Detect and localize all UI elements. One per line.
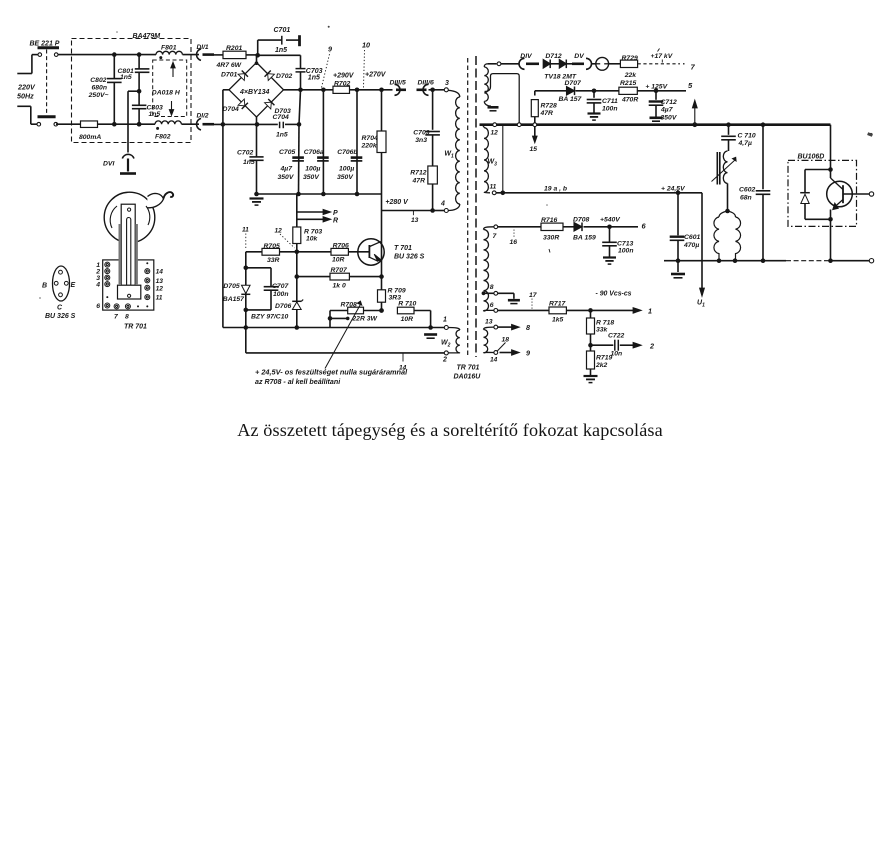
svg-text:10: 10 <box>362 41 370 50</box>
svg-text:350V: 350V <box>278 174 295 181</box>
svg-text:F801: F801 <box>161 44 177 51</box>
svg-text:C802: C802 <box>90 77 106 84</box>
svg-text:100n: 100n <box>602 106 618 113</box>
svg-text:1n5: 1n5 <box>308 75 320 82</box>
svg-text:47R: 47R <box>540 110 554 117</box>
svg-text:DA018 H: DA018 H <box>152 90 181 97</box>
svg-text:az R708 - al kell beállítan: az R708 - al kell beállítani <box>255 378 341 386</box>
svg-text:Az összetett tápegység és a so: Az összetett tápegység és a soreltérítő … <box>237 420 663 440</box>
svg-text:2: 2 <box>442 357 447 364</box>
svg-text:68n: 68n <box>740 195 752 202</box>
svg-text:+ 125V: + 125V <box>645 83 668 90</box>
svg-text:10k: 10k <box>306 236 319 243</box>
svg-text:+290V: +290V <box>333 73 355 80</box>
svg-text:- 90 Vcs-cs: - 90 Vcs-cs <box>596 291 632 298</box>
svg-text:+270V: +270V <box>365 72 387 79</box>
svg-text:1n5: 1n5 <box>149 111 161 118</box>
svg-text:800mA: 800mA <box>79 134 101 141</box>
svg-text:220V: 220V <box>17 83 36 92</box>
svg-text:R702: R702 <box>334 81 350 88</box>
svg-text:BU 326 S: BU 326 S <box>45 313 76 320</box>
svg-text:16: 16 <box>510 239 518 246</box>
svg-text:100n: 100n <box>618 248 634 255</box>
svg-text:D706: D706 <box>275 303 291 310</box>
svg-text:BA 157: BA 157 <box>559 96 583 103</box>
svg-text:250V~: 250V~ <box>88 92 109 99</box>
svg-text:R719: R719 <box>596 355 612 362</box>
svg-text:15: 15 <box>530 146 538 153</box>
svg-text:2: 2 <box>649 342 654 351</box>
svg-text:BA479M: BA479M <box>133 33 161 40</box>
svg-text:47R: 47R <box>412 178 426 185</box>
svg-text:BA 159: BA 159 <box>573 235 596 242</box>
svg-text:100µ: 100µ <box>339 166 354 173</box>
svg-text:1n5: 1n5 <box>275 47 287 54</box>
svg-text:13: 13 <box>156 278 164 285</box>
svg-text:R215: R215 <box>620 80 636 87</box>
svg-text:+ 24,5V- os feszültséget nul: + 24,5V- os feszültséget nulla sugáráram… <box>255 368 408 377</box>
svg-text:D707: D707 <box>565 80 582 87</box>
svg-text:R: R <box>333 218 338 225</box>
svg-text:470µ: 470µ <box>683 242 699 249</box>
svg-text:C701: C701 <box>274 27 291 34</box>
svg-text:10R: 10R <box>332 257 345 264</box>
svg-text:470R: 470R <box>621 97 638 104</box>
svg-text:100n: 100n <box>273 291 289 298</box>
svg-text:DVI: DVI <box>103 161 114 168</box>
svg-text:33k: 33k <box>596 327 609 334</box>
svg-text:BU106D: BU106D <box>798 154 825 161</box>
svg-text:C 710: C 710 <box>738 133 756 140</box>
svg-text:+ 24,5V: + 24,5V <box>661 186 686 193</box>
svg-text:13: 13 <box>411 217 419 224</box>
svg-text:R201: R201 <box>226 45 242 52</box>
svg-text:11: 11 <box>156 295 163 302</box>
svg-text:6: 6 <box>490 302 494 309</box>
svg-text:19 a , b: 19 a , b <box>544 186 567 193</box>
svg-text:1: 1 <box>443 317 447 324</box>
svg-text:DA016U: DA016U <box>454 374 482 381</box>
svg-text:R716: R716 <box>541 217 557 224</box>
svg-text:4,7µ: 4,7µ <box>738 140 752 147</box>
svg-text:R704: R704 <box>362 135 378 142</box>
svg-text:1n5: 1n5 <box>120 74 132 81</box>
svg-text:D702: D702 <box>276 73 292 80</box>
svg-text:C707: C707 <box>272 283 289 290</box>
svg-text:DI/2: DI/2 <box>197 113 209 120</box>
svg-text:C602: C602 <box>739 187 755 194</box>
svg-text:13: 13 <box>485 319 493 326</box>
svg-text:3: 3 <box>445 80 449 87</box>
svg-text:C706b: C706b <box>337 149 357 156</box>
svg-text:R 710: R 710 <box>398 301 416 308</box>
svg-text:350V: 350V <box>303 174 320 181</box>
svg-text:6: 6 <box>96 303 100 310</box>
svg-text:R708: R708 <box>341 301 357 308</box>
svg-text:R712: R712 <box>410 170 426 177</box>
svg-text:D708: D708 <box>573 217 589 224</box>
svg-text:3n3: 3n3 <box>415 137 427 144</box>
svg-text:100µ: 100µ <box>305 166 320 173</box>
svg-text:4: 4 <box>440 201 445 208</box>
svg-text:1n5: 1n5 <box>243 159 255 166</box>
svg-text:1k5: 1k5 <box>552 317 564 324</box>
svg-text:D712: D712 <box>545 53 561 60</box>
svg-text:R729: R729 <box>622 55 638 62</box>
svg-text:R707: R707 <box>331 267 348 274</box>
svg-text:C705: C705 <box>279 149 295 156</box>
svg-text:BU 326 S: BU 326 S <box>394 254 425 261</box>
svg-text:18: 18 <box>502 337 510 344</box>
svg-text:4R7 6W: 4R7 6W <box>216 62 242 69</box>
svg-text:14: 14 <box>490 357 498 364</box>
svg-text:C601: C601 <box>684 234 700 241</box>
svg-text:C706a: C706a <box>304 149 324 156</box>
svg-text:T 701: T 701 <box>394 245 412 252</box>
svg-text:22k: 22k <box>624 72 638 79</box>
svg-text:P: P <box>333 210 338 217</box>
svg-text:8: 8 <box>526 323 530 332</box>
svg-text:C712: C712 <box>661 99 677 106</box>
svg-text:11: 11 <box>490 184 497 191</box>
svg-text:14: 14 <box>156 269 164 276</box>
svg-text:50Hz: 50Hz <box>17 92 34 101</box>
svg-text:680n: 680n <box>92 84 108 91</box>
svg-text:350V: 350V <box>337 174 354 181</box>
svg-text:9: 9 <box>328 45 332 54</box>
svg-text:D701: D701 <box>221 71 237 78</box>
svg-text:C713: C713 <box>617 241 633 248</box>
svg-text:BA157: BA157 <box>223 296 245 303</box>
svg-text:C702: C702 <box>237 150 253 157</box>
svg-text:TR 701: TR 701 <box>124 324 147 331</box>
svg-text:R717: R717 <box>549 301 566 308</box>
svg-text:4µ7: 4µ7 <box>660 107 674 114</box>
svg-text:+17 kV: +17 kV <box>651 53 674 60</box>
svg-text:R 709: R 709 <box>388 288 406 295</box>
svg-text:R728: R728 <box>541 103 557 110</box>
svg-text:D705: D705 <box>223 283 239 290</box>
svg-text:D704: D704 <box>223 106 239 113</box>
svg-text:C704: C704 <box>273 114 289 121</box>
svg-text:DV: DV <box>574 53 585 60</box>
svg-text:C711: C711 <box>602 98 618 105</box>
svg-text:12: 12 <box>491 130 499 137</box>
svg-text:R705: R705 <box>264 243 280 250</box>
svg-text:R 718: R 718 <box>596 320 614 327</box>
svg-text:DI/1: DI/1 <box>197 44 209 51</box>
svg-text:R706: R706 <box>333 242 349 249</box>
svg-text:TR 701: TR 701 <box>457 365 480 372</box>
svg-text:350V: 350V <box>661 115 678 122</box>
svg-text:+280 V: +280 V <box>385 199 409 206</box>
svg-text:1k 0: 1k 0 <box>333 283 346 290</box>
svg-text:F802: F802 <box>155 134 171 141</box>
svg-text:1: 1 <box>648 307 652 316</box>
svg-text:8: 8 <box>125 314 129 321</box>
svg-text:C722: C722 <box>608 333 624 340</box>
svg-text:11: 11 <box>242 227 249 234</box>
svg-text:12: 12 <box>275 228 283 235</box>
svg-text:R 703: R 703 <box>304 229 322 236</box>
svg-text:12: 12 <box>156 285 164 292</box>
svg-text:8: 8 <box>490 284 494 291</box>
svg-text:4µ7: 4µ7 <box>280 166 294 173</box>
svg-text:+540V: +540V <box>600 217 621 224</box>
svg-text:17: 17 <box>529 292 538 299</box>
svg-text:2k2: 2k2 <box>595 362 608 369</box>
svg-text:9: 9 <box>526 349 530 358</box>
svg-text:C709: C709 <box>413 130 429 137</box>
svg-text:BZY 97/C10: BZY 97/C10 <box>251 314 288 321</box>
svg-text:4×BY134: 4×BY134 <box>239 89 269 96</box>
svg-text:10R: 10R <box>401 316 414 323</box>
svg-text:10n: 10n <box>611 351 623 358</box>
svg-text:22R 3W: 22R 3W <box>351 315 377 322</box>
svg-text:E: E <box>71 282 76 289</box>
svg-text:1n5: 1n5 <box>276 132 288 139</box>
svg-text:330R: 330R <box>543 235 559 242</box>
svg-text:4: 4 <box>95 282 100 289</box>
svg-text:220k: 220k <box>361 143 378 150</box>
svg-text:B: B <box>42 283 47 290</box>
svg-text:33R: 33R <box>267 257 280 264</box>
